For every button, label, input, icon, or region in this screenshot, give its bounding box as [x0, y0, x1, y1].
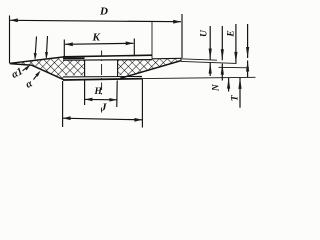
profile: recess line under top surface — [63, 59, 152, 62]
face check arrow left — [35, 37, 37, 59]
svg-text:J: J — [100, 102, 107, 114]
left taper hatching — [10, 58, 63, 80]
arrowhead alpha1 — [25, 65, 31, 71]
profile: bore right edge — [117, 60, 119, 77]
svg-text:α1: α1 — [10, 66, 25, 81]
arrowhead J left — [63, 116, 71, 120]
left hub block hatching — [63, 60, 85, 75]
dimension U line upper — [209, 26, 211, 60]
arrowhead T mid up — [246, 61, 249, 72]
bottom reference line right — [142, 77, 255, 78]
dimension K line — [65, 43, 134, 44]
rim bottom reference line right — [181, 61, 237, 63]
svg-text:H: H — [94, 87, 103, 97]
svg-text:T: T — [231, 94, 241, 101]
dimension T line lower — [239, 78, 241, 108]
svg-text:N: N — [211, 83, 221, 92]
face check arrow right — [46, 36, 47, 58]
arrowhead N down — [234, 52, 237, 63]
arrowhead D left — [10, 18, 18, 22]
dimension K extension line right — [133, 39, 135, 57]
arrowhead U down — [209, 49, 212, 60]
arrowhead K left — [65, 42, 73, 46]
profile: right taper bottom edge — [120, 61, 181, 79]
dimension K extension line left — [63, 40, 65, 58]
dimension E line lower — [221, 64, 223, 81]
dimension N line upper — [235, 24, 237, 63]
profile: left taper bottom edge shallow — [10, 64, 32, 66]
step edge and extension at taper start — [151, 21, 153, 59]
dimension D line — [10, 20, 181, 21]
arrowhead T down — [246, 47, 249, 58]
arrowhead J right — [134, 118, 142, 122]
dimension T line mid — [247, 61, 249, 78]
dimension T line upper — [247, 24, 249, 58]
arrowhead face check right — [45, 52, 48, 59]
profile: merged thick top edge over left hub block — [63, 57, 85, 59]
profile: bore left edge — [84, 60, 86, 77]
leader arrow alpha1 — [23, 66, 29, 71]
profile: left taper top edge — [10, 57, 63, 63]
svg-text:U: U — [200, 29, 210, 37]
arrowhead D right — [173, 20, 181, 24]
dimension U line lower — [209, 63, 211, 76]
dimension J extension line left — [62, 81, 64, 127]
profile: right tip end face — [180, 58, 182, 61]
dimension J extension line right — [141, 79, 143, 128]
arrowhead H left — [85, 98, 92, 102]
svg-text:α: α — [24, 78, 34, 91]
profile: left taper bottom edge steep — [32, 65, 64, 80]
svg-text:K: K — [92, 32, 101, 44]
arrowhead face check left — [34, 53, 37, 60]
arrowhead alpha — [35, 71, 40, 77]
rim top reference line right — [181, 59, 217, 60]
profile: bottom flat surface — [63, 79, 142, 80]
dimension D extension line right — [181, 14, 183, 58]
centerline of bore — [101, 51, 103, 113]
arrowhead K right — [126, 41, 134, 45]
dimension H line — [85, 98, 117, 100]
arrowhead N up — [227, 78, 230, 89]
dimension E line upper — [221, 26, 223, 60]
svg-text:E: E — [227, 30, 237, 37]
dimension H extension line left — [84, 81, 86, 106]
arrowhead E up — [221, 64, 224, 75]
dimension J line — [63, 118, 142, 120]
right hub and taper hatching — [118, 58, 182, 75]
arrowhead E down — [221, 49, 224, 60]
svg-text:D: D — [99, 6, 108, 18]
profile: lower recess line — [63, 75, 142, 78]
arrowhead H right — [109, 98, 116, 102]
dimension H extension line right — [116, 81, 118, 108]
profile: top surface line — [63, 55, 152, 57]
dimension D extension line left — [9, 16, 11, 64]
arrowhead U up — [209, 63, 212, 74]
dimension N line lower — [228, 78, 230, 92]
leader arrow alpha — [34, 73, 40, 80]
arrowhead T up — [238, 78, 241, 89]
mid reference line right — [219, 66, 250, 69]
profile: right taper top edge — [152, 57, 181, 60]
